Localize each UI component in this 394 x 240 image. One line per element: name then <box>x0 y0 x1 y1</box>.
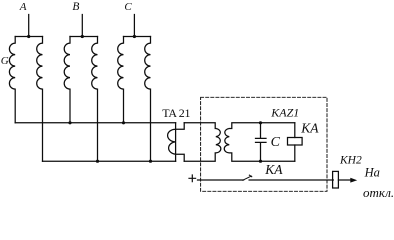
svg-text:KH2: KH2 <box>339 154 362 166</box>
wire lower neutral bus <box>43 160 176 162</box>
inductor G phase B branch 1 <box>64 37 70 123</box>
relay KA coil wire top <box>294 123 296 138</box>
wire phase A header <box>15 36 42 38</box>
contact KA (normally open) <box>243 175 252 180</box>
wire phase B header <box>70 36 98 38</box>
inductor G phase C branch 1 <box>118 37 124 123</box>
relay KAZ1 input winding <box>224 123 295 161</box>
node B junction dot <box>81 35 84 38</box>
dashed boundary relay KAZ1 enclosure <box>201 97 327 191</box>
inductor G phase B branch 2 <box>92 37 98 162</box>
transformer TA21 secondary winding <box>184 123 221 161</box>
wire phase C header <box>124 36 151 38</box>
svg-text:C: C <box>124 1 132 13</box>
wire phase B lead <box>81 15 83 37</box>
inductor G phase A branch 2 <box>37 37 43 162</box>
plus terminal <box>189 175 196 182</box>
junction dot lower bus phase C <box>149 160 152 163</box>
indicator relay KH2 <box>333 171 339 188</box>
capacitor C <box>256 123 267 161</box>
svg-text:TA 21: TA 21 <box>162 106 190 120</box>
wire phase C lead <box>133 15 135 37</box>
svg-text:G: G <box>1 55 9 67</box>
node C junction dot <box>133 35 136 38</box>
svg-text:откл.: откл. <box>363 185 394 198</box>
svg-text:C: C <box>271 135 281 150</box>
svg-text:KA: KA <box>300 121 319 136</box>
transformer TA21 primary winding <box>168 123 185 161</box>
junction dot capacitor top <box>259 121 262 124</box>
svg-text:KA: KA <box>264 162 283 177</box>
junction dot upper bus phase C <box>122 121 125 124</box>
inductor G phase A branch 1 <box>9 37 15 123</box>
relay KA coil <box>288 138 303 146</box>
junction dot upper bus phase B <box>68 121 71 124</box>
wire trip circuit right <box>249 179 333 181</box>
arrow to trip <box>350 178 357 183</box>
svg-text:A: A <box>19 1 27 13</box>
junction dot capacitor bottom <box>259 160 262 163</box>
inductor G phase C branch 2 <box>145 37 151 162</box>
node A junction dot <box>27 35 30 38</box>
wire phase A lead <box>28 15 30 37</box>
svg-text:На: На <box>364 166 380 180</box>
wire to trip output <box>338 179 350 181</box>
relay KA coil wire bottom <box>294 145 296 161</box>
wire upper neutral bus <box>15 122 175 124</box>
wire trip circuit left <box>198 179 244 181</box>
junction dot lower bus phase B <box>96 160 99 163</box>
svg-text:KAZ1: KAZ1 <box>270 106 299 120</box>
svg-text:B: B <box>72 1 79 13</box>
